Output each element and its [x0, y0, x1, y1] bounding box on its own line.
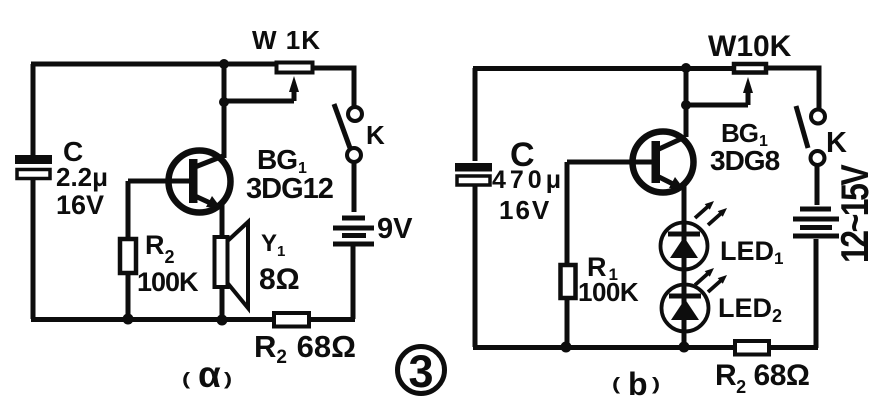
svg-text:(: ( [612, 374, 621, 394]
svg-text:b: b [628, 366, 648, 402]
svg-text:3: 3 [408, 346, 433, 397]
svg-text:470μ: 470μ [492, 166, 565, 194]
svg-text:16V: 16V [56, 190, 104, 220]
svg-text:100K: 100K [137, 267, 199, 297]
svg-text:R2 68Ω: R2 68Ω [715, 359, 809, 397]
svg-text:K: K [366, 120, 385, 150]
svg-text:α: α [198, 354, 221, 395]
svg-text:W10K: W10K [708, 30, 792, 63]
svg-text:9V: 9V [377, 213, 413, 245]
svg-text:): ) [652, 374, 660, 394]
svg-text:): ) [224, 369, 232, 389]
svg-text:8Ω: 8Ω [259, 263, 300, 296]
svg-text:3DG12: 3DG12 [246, 173, 333, 205]
svg-text:R2 68Ω: R2 68Ω [254, 329, 356, 368]
svg-text:16V: 16V [499, 195, 551, 225]
svg-text:LED1: LED1 [720, 236, 783, 268]
svg-text:12~15V: 12~15V [833, 164, 874, 263]
svg-text:(: ( [182, 369, 191, 389]
svg-text:K: K [826, 127, 847, 159]
svg-text:3DG8: 3DG8 [710, 145, 780, 176]
svg-text:W 1K: W 1K [252, 25, 321, 55]
svg-text:100K: 100K [578, 277, 639, 307]
svg-text:2.2μ: 2.2μ [56, 162, 108, 192]
